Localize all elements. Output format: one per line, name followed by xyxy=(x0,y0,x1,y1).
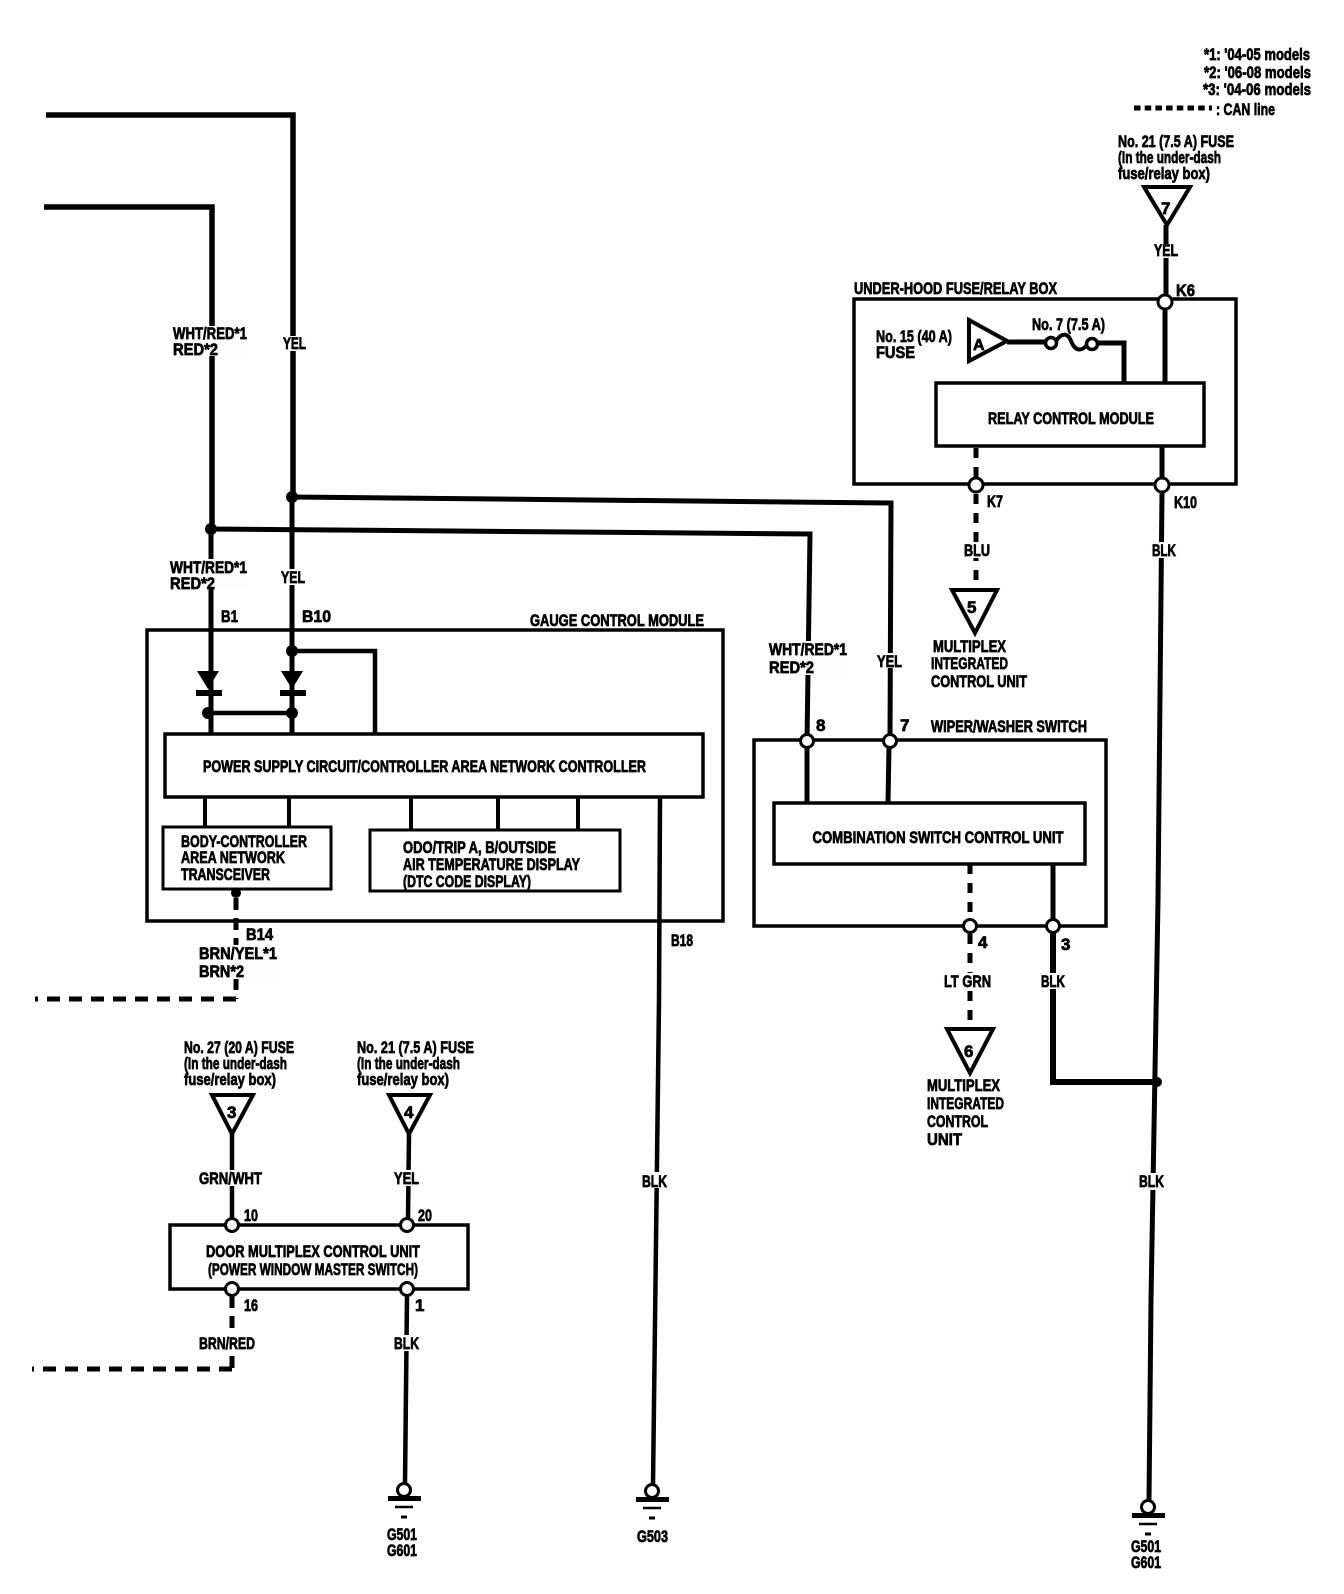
svg-text:(DTC CODE DISPLAY): (DTC CODE DISPLAY) xyxy=(403,872,531,891)
svg-text:*1: '04-05 models: *1: '04-05 models xyxy=(1204,45,1310,64)
svg-text:G601: G601 xyxy=(1131,1553,1161,1572)
svg-text:BRN*2: BRN*2 xyxy=(199,962,244,981)
svg-text:RED*2: RED*2 xyxy=(170,574,215,593)
svg-text:INTEGRATED: INTEGRATED xyxy=(927,1094,1004,1113)
svg-text:INTEGRATED: INTEGRATED xyxy=(931,654,1008,673)
svg-text:RED*2: RED*2 xyxy=(173,340,218,359)
svg-text:B10: B10 xyxy=(302,607,331,626)
svg-text:GRN/WHT: GRN/WHT xyxy=(199,1169,262,1188)
svg-text:K6: K6 xyxy=(1176,281,1195,300)
svg-text:20: 20 xyxy=(418,1206,432,1225)
svg-text:YEL: YEL xyxy=(1154,241,1178,260)
svg-text:6: 6 xyxy=(964,1042,973,1061)
svg-text:16: 16 xyxy=(244,1296,258,1315)
svg-text:K10: K10 xyxy=(1174,493,1197,512)
svg-text:BLK: BLK xyxy=(1152,541,1176,560)
svg-text:fuse/relay box): fuse/relay box) xyxy=(184,1070,276,1089)
svg-text:BLK: BLK xyxy=(394,1334,420,1353)
svg-text:BLK: BLK xyxy=(1041,972,1065,991)
svg-text:LT GRN: LT GRN xyxy=(944,972,991,991)
svg-text:BLK: BLK xyxy=(642,1172,668,1191)
svg-text:B1: B1 xyxy=(221,607,238,626)
svg-text:4: 4 xyxy=(978,933,988,952)
svg-text:RED*2: RED*2 xyxy=(769,658,814,677)
svg-text:B14: B14 xyxy=(246,925,273,944)
svg-text:5: 5 xyxy=(967,598,976,617)
svg-text:CONTROL: CONTROL xyxy=(927,1112,988,1131)
svg-text:*3: '04-06 models: *3: '04-06 models xyxy=(1203,80,1311,99)
svg-text:UNDER-HOOD FUSE/RELAY BOX: UNDER-HOOD FUSE/RELAY BOX xyxy=(854,279,1057,298)
svg-text:4: 4 xyxy=(404,1103,414,1122)
svg-text:CONTROL UNIT: CONTROL UNIT xyxy=(931,672,1027,691)
svg-text:3: 3 xyxy=(227,1103,236,1122)
svg-text:8: 8 xyxy=(816,716,825,735)
svg-text:BLK: BLK xyxy=(1139,1172,1165,1191)
svg-text:A: A xyxy=(973,337,985,354)
svg-text:fuse/relay box): fuse/relay box) xyxy=(1118,164,1210,183)
svg-text:WHT/RED*1: WHT/RED*1 xyxy=(769,640,847,659)
svg-text:10: 10 xyxy=(244,1206,258,1225)
svg-text:No. 7 (7.5 A): No. 7 (7.5 A) xyxy=(1032,315,1105,334)
svg-text:BRN/RED: BRN/RED xyxy=(199,1334,255,1353)
svg-text:TRANSCEIVER: TRANSCEIVER xyxy=(181,865,270,884)
svg-text:BLU: BLU xyxy=(964,541,990,560)
svg-text:fuse/relay box): fuse/relay box) xyxy=(357,1070,449,1089)
svg-text:YEL: YEL xyxy=(281,568,305,587)
svg-text:MULTIPLEX: MULTIPLEX xyxy=(927,1076,1001,1095)
svg-text:YEL: YEL xyxy=(877,652,902,671)
svg-text:FUSE: FUSE xyxy=(876,343,915,362)
svg-text:B18: B18 xyxy=(671,931,693,950)
svg-text:WIPER/WASHER SWITCH: WIPER/WASHER SWITCH xyxy=(931,717,1087,736)
svg-text:BRN/YEL*1: BRN/YEL*1 xyxy=(199,944,277,963)
svg-text:G503: G503 xyxy=(637,1527,668,1546)
svg-text:POWER SUPPLY CIRCUIT/CONTROLLE: POWER SUPPLY CIRCUIT/CONTROLLER AREA NET… xyxy=(203,757,646,776)
svg-text:G601: G601 xyxy=(387,1541,417,1560)
svg-text:3: 3 xyxy=(1061,935,1070,954)
svg-text:UNIT: UNIT xyxy=(927,1130,963,1149)
svg-text:DOOR MULTIPLEX CONTROL UNIT: DOOR MULTIPLEX CONTROL UNIT xyxy=(206,1242,420,1261)
svg-text:7: 7 xyxy=(1161,199,1170,218)
svg-text:(POWER WINDOW MASTER SWITCH): (POWER WINDOW MASTER SWITCH) xyxy=(208,1260,418,1279)
svg-text:7: 7 xyxy=(900,716,909,735)
svg-text:GAUGE CONTROL MODULE: GAUGE CONTROL MODULE xyxy=(530,611,704,630)
svg-text:: CAN line: : CAN line xyxy=(1216,100,1275,119)
svg-text:K7: K7 xyxy=(987,492,1003,511)
svg-text:RELAY CONTROL MODULE: RELAY CONTROL MODULE xyxy=(988,409,1154,428)
svg-text:YEL: YEL xyxy=(283,334,306,353)
svg-text:YEL: YEL xyxy=(394,1169,419,1188)
svg-text:1: 1 xyxy=(415,1296,424,1315)
svg-text:COMBINATION SWITCH CONTROL UNI: COMBINATION SWITCH CONTROL UNIT xyxy=(813,828,1064,847)
